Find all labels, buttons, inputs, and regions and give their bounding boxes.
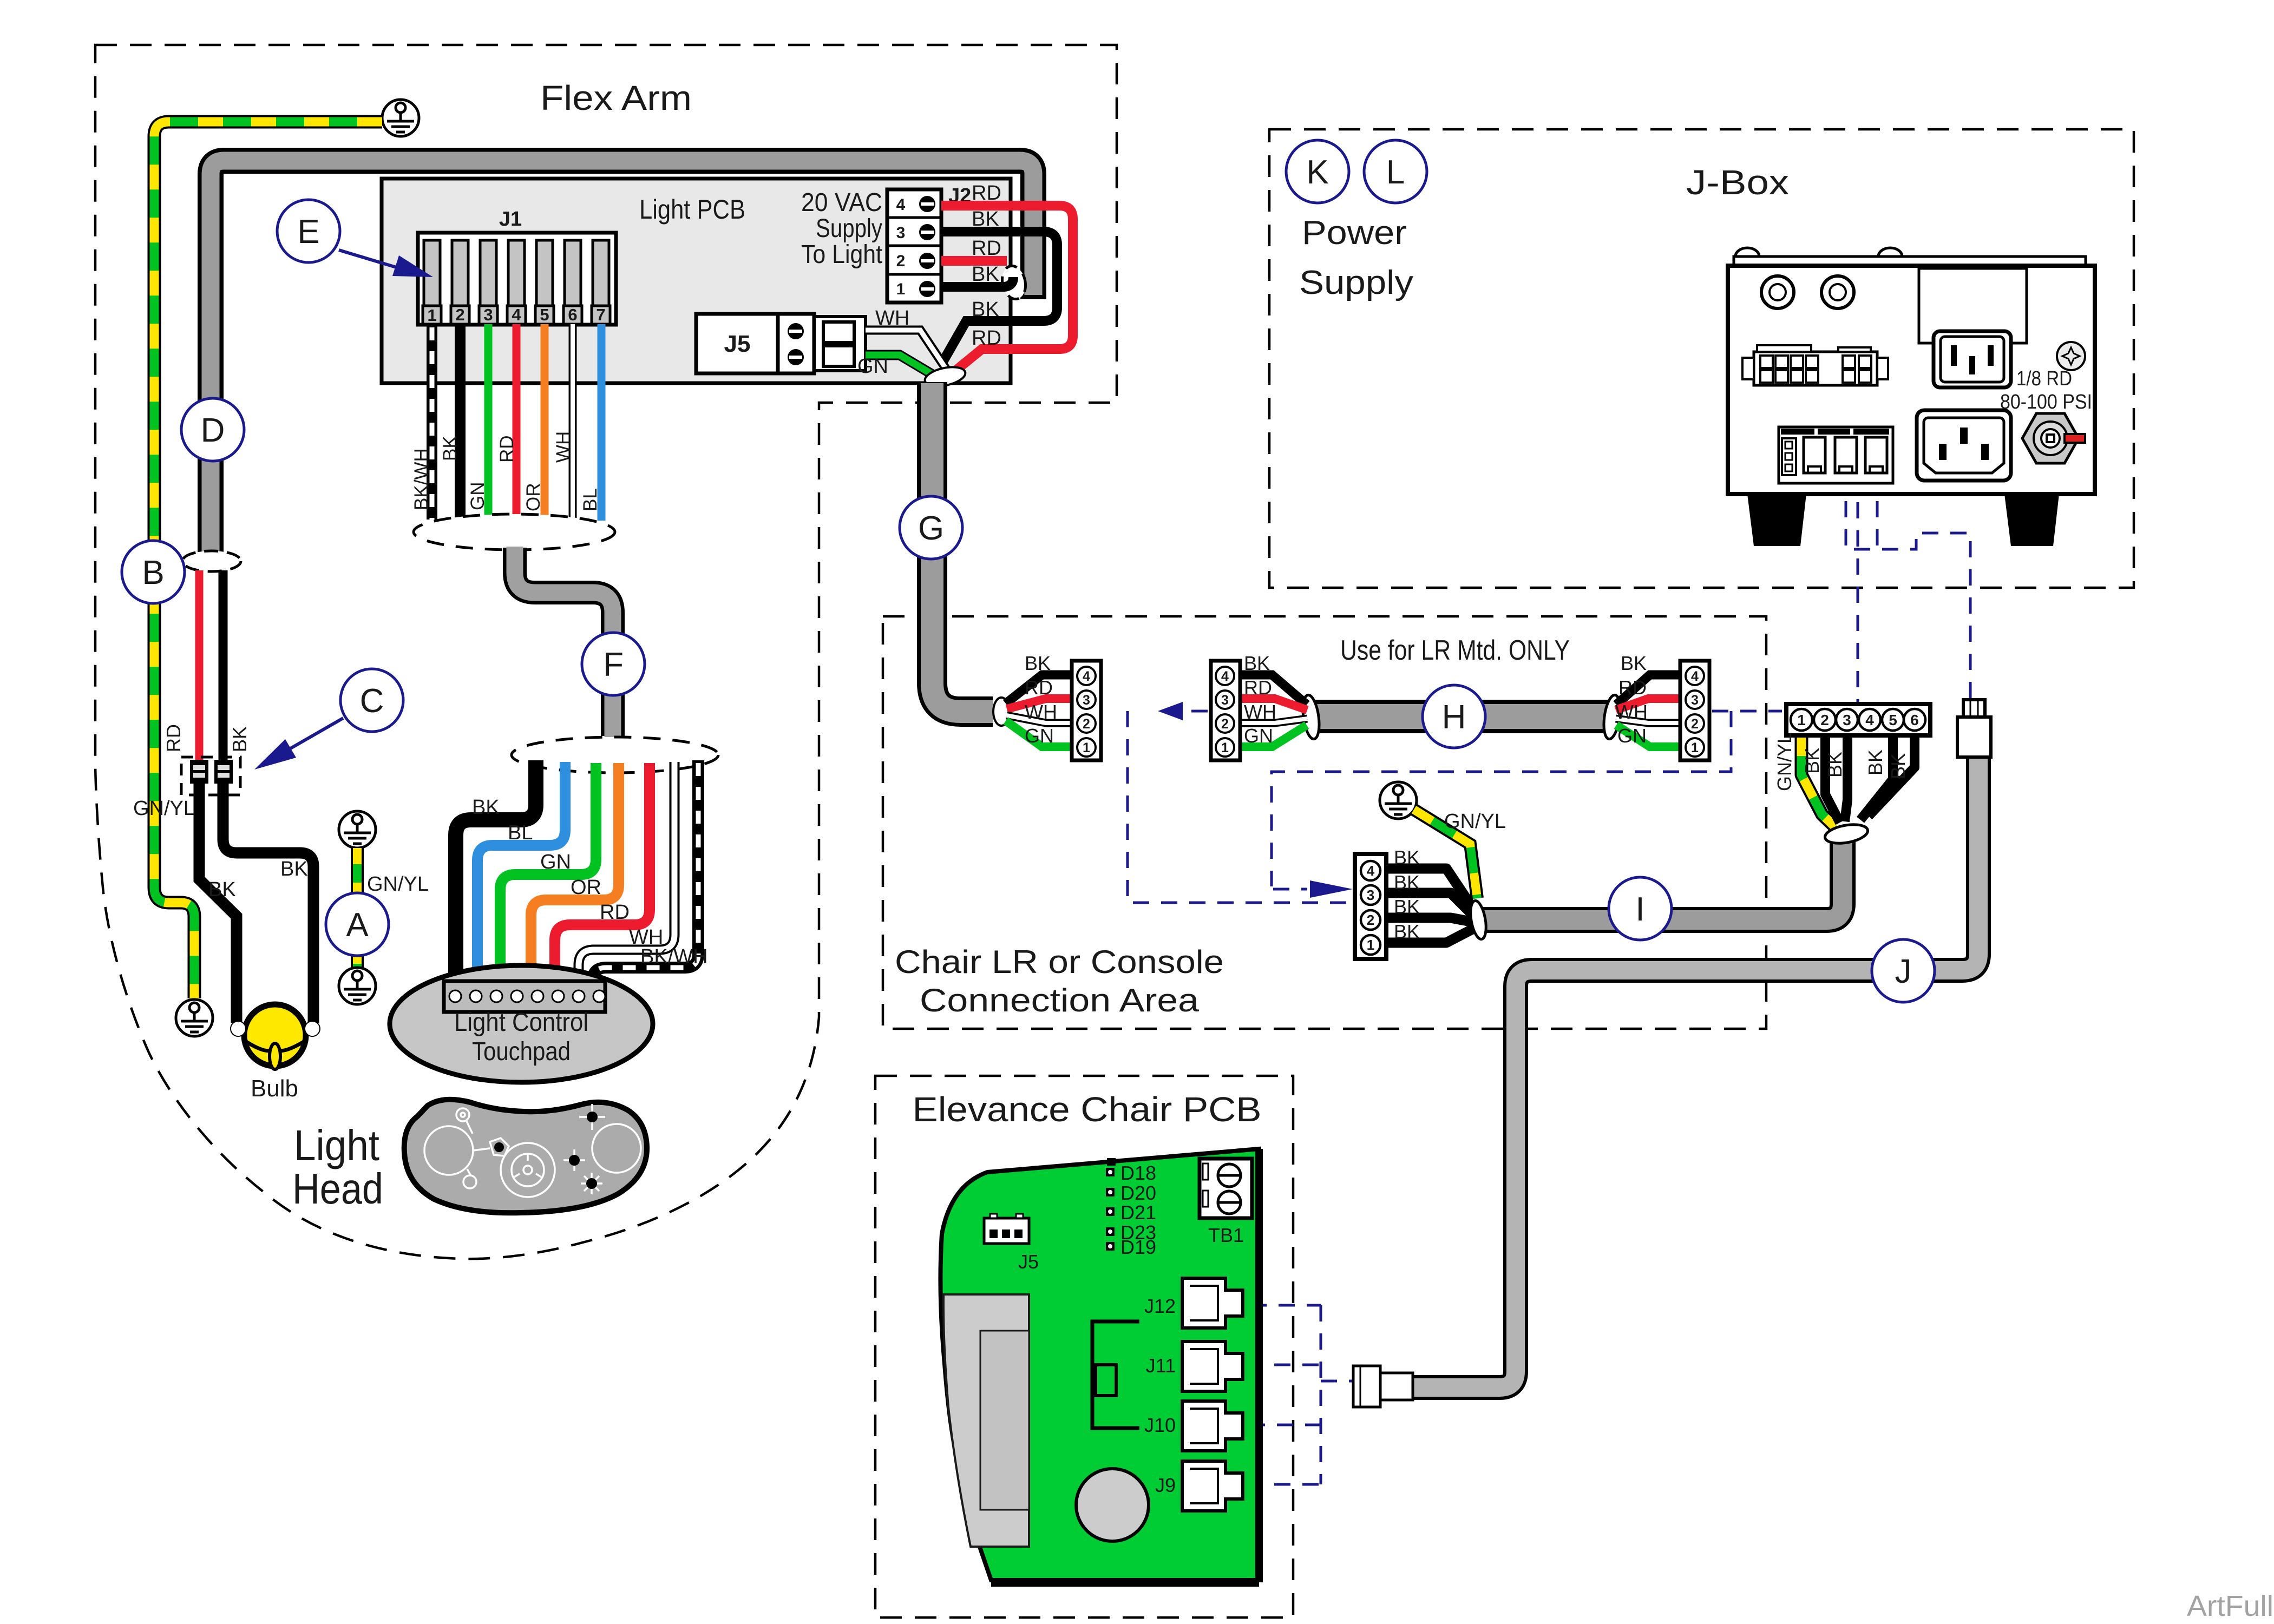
svg-text:Head: Head bbox=[292, 1165, 383, 1213]
6-pin bundle crimp bbox=[1824, 821, 1869, 846]
svg-text:GN: GN bbox=[1025, 725, 1054, 747]
wire D cable (grey, light head supply) bbox=[211, 161, 1033, 553]
svg-text:4: 4 bbox=[512, 305, 521, 324]
callout circle G bbox=[900, 496, 962, 559]
svg-text:Flex Arm: Flex Arm bbox=[540, 78, 692, 117]
touchpad fan wire OR bbox=[531, 763, 619, 984]
svg-text:BK: BK bbox=[1394, 921, 1420, 943]
svg-text:GN: GN bbox=[1617, 725, 1647, 747]
svg-text:4: 4 bbox=[1691, 669, 1699, 684]
PCB bracket bbox=[1092, 1321, 1139, 1428]
svg-text:J10: J10 bbox=[1144, 1414, 1176, 1436]
J11 jack bbox=[1182, 1342, 1243, 1391]
svg-text:BK/WH: BK/WH bbox=[640, 945, 708, 968]
svg-text:BK: BK bbox=[1621, 652, 1647, 674]
svg-text:BL: BL bbox=[508, 821, 533, 844]
touchpad cable opening (lower F ellipse) bbox=[512, 737, 718, 773]
A ground-bonding assembly bbox=[339, 811, 376, 848]
svg-text:BK: BK bbox=[972, 263, 999, 286]
J1 wire 7 BL bbox=[598, 324, 606, 521]
J-Box chassis bbox=[1734, 257, 2086, 267]
D cable upper end opening (near J2) bbox=[999, 264, 1028, 301]
Elevance Chair PCB dashed box bbox=[875, 1076, 1293, 1618]
svg-text:1: 1 bbox=[896, 280, 906, 298]
TB1 terminal bbox=[1200, 1159, 1252, 1218]
svg-text:OR: OR bbox=[571, 876, 601, 899]
svg-text:J1: J1 bbox=[499, 208, 522, 231]
svg-text:To Light: To Light bbox=[801, 240, 882, 269]
svg-text:WH: WH bbox=[1615, 701, 1648, 723]
feet bbox=[1747, 494, 1806, 546]
svg-text:5: 5 bbox=[540, 305, 549, 324]
J1 wire 3 GN bbox=[484, 324, 493, 522]
J2 wire BK terminal 1 to D cable bbox=[941, 277, 1013, 287]
svg-text:WH: WH bbox=[553, 431, 574, 463]
cable J (from Elevance PCB to power supply) bbox=[1411, 759, 1978, 1388]
callout circle K bbox=[1286, 140, 1349, 203]
route H-assembly to left connector (arrow) bbox=[1128, 361, 1970, 1484]
callout circle B bbox=[122, 541, 185, 603]
svg-text:BK: BK bbox=[472, 796, 500, 819]
svg-text:Touchpad: Touchpad bbox=[472, 1037, 571, 1066]
svg-text:F: F bbox=[603, 646, 624, 683]
svg-text:1/8 RD: 1/8 RD bbox=[2016, 367, 2072, 390]
svg-text:4: 4 bbox=[1221, 669, 1229, 684]
svg-text:4: 4 bbox=[896, 196, 906, 214]
E arrow bbox=[339, 250, 412, 272]
svg-text:GN: GN bbox=[540, 851, 571, 873]
svg-text:WH: WH bbox=[875, 307, 909, 330]
svg-text:E: E bbox=[297, 213, 319, 251]
mounting holes bbox=[1761, 276, 1794, 308]
touchpad fan wire WH bbox=[579, 762, 674, 984]
svg-text:3: 3 bbox=[483, 305, 493, 324]
svg-text:BK: BK bbox=[1025, 652, 1051, 674]
cable I bbox=[1482, 842, 1843, 920]
callout circle H bbox=[1423, 685, 1485, 748]
svg-text:J9: J9 bbox=[1155, 1474, 1176, 1496]
J2 wire BK terminal 3 loop to G head bbox=[941, 232, 1057, 363]
svg-text:GN/YL: GN/YL bbox=[367, 873, 429, 896]
svg-text:D: D bbox=[201, 412, 225, 449]
svg-text:4: 4 bbox=[1865, 712, 1874, 728]
svg-text:6: 6 bbox=[1910, 712, 1919, 728]
svg-text:WH: WH bbox=[1025, 701, 1057, 723]
svg-text:BK: BK bbox=[1801, 748, 1823, 774]
LED indicators bbox=[1106, 1158, 1116, 1251]
svg-text:J11: J11 bbox=[1146, 1355, 1176, 1377]
svg-text:J: J bbox=[1895, 953, 1912, 990]
svg-text:20 VAC: 20 VAC bbox=[801, 188, 882, 217]
J2 wire RD terminal 2 to D cable bbox=[941, 256, 1007, 266]
svg-text:2: 2 bbox=[1820, 712, 1829, 728]
J5 connector on light PCB bbox=[696, 314, 866, 373]
pneumatic fitting bbox=[2022, 413, 2079, 463]
touchpad fan wire BL bbox=[477, 762, 565, 984]
touchpad fan wire GN bbox=[500, 763, 596, 984]
svg-text:1: 1 bbox=[427, 306, 436, 325]
svg-text:GN/YL: GN/YL bbox=[133, 797, 195, 820]
svg-text:BK: BK bbox=[280, 858, 308, 880]
Chair LR or Console dashed box bbox=[883, 616, 1766, 1029]
C arrow bbox=[271, 718, 343, 760]
svg-text:6: 6 bbox=[568, 305, 577, 324]
RJ45 plug to power supply bbox=[1957, 700, 1991, 757]
svg-text:Light Control: Light Control bbox=[454, 1008, 588, 1037]
GN wire J5 to G head bbox=[866, 355, 940, 379]
cable G (to chair connection) bbox=[932, 382, 993, 712]
J1 connector bbox=[418, 208, 616, 325]
svg-text:4: 4 bbox=[1367, 863, 1375, 879]
svg-text:3: 3 bbox=[1221, 693, 1229, 708]
cable F bbox=[515, 548, 613, 736]
J9 jack bbox=[1182, 1461, 1243, 1511]
svg-text:BK: BK bbox=[972, 298, 999, 321]
svg-text:GN: GN bbox=[467, 482, 488, 511]
ground symbol top left bbox=[382, 100, 419, 136]
H-cable left 4-pin connector bbox=[1211, 661, 1240, 760]
svg-text:4: 4 bbox=[1083, 669, 1090, 684]
IEC inlet C14 bbox=[1934, 331, 2011, 387]
svg-text:BK: BK bbox=[1244, 652, 1270, 674]
svg-text:Use for LR Mtd. ONLY: Use for LR Mtd. ONLY bbox=[1340, 635, 1570, 666]
svg-text:RD: RD bbox=[600, 901, 630, 924]
svg-text:RD: RD bbox=[162, 724, 185, 752]
svg-text:RD: RD bbox=[972, 237, 1001, 260]
svg-text:3: 3 bbox=[1367, 887, 1374, 903]
GN/YL wire B to ground bbox=[154, 122, 382, 998]
svg-text:RD: RD bbox=[1244, 676, 1272, 699]
touchpad connector bar bbox=[444, 981, 605, 1012]
svg-text:BK: BK bbox=[1394, 846, 1420, 869]
svg-text:OR: OR bbox=[523, 483, 544, 512]
RD wire from D cable to connector C bbox=[195, 570, 204, 763]
svg-text:BK: BK bbox=[228, 726, 251, 752]
Light PCB board bbox=[382, 179, 1011, 383]
svg-text:GN/YL: GN/YL bbox=[1773, 733, 1795, 791]
H-cable right 4-pin connector bbox=[1680, 661, 1709, 760]
svg-text:BK: BK bbox=[1864, 749, 1886, 775]
svg-text:H: H bbox=[1442, 699, 1466, 736]
G-end 4-pin connector bbox=[1072, 661, 1101, 760]
G-end connector wires bbox=[1006, 675, 1072, 747]
svg-text:Elevance Chair PCB: Elevance Chair PCB bbox=[913, 1090, 1262, 1129]
touchpad fan wire BK bbox=[456, 760, 536, 984]
svg-text:2: 2 bbox=[896, 252, 906, 270]
svg-text:J12: J12 bbox=[1144, 1295, 1176, 1317]
GN/YL wire to I bundle bbox=[1414, 810, 1477, 898]
svg-text:1: 1 bbox=[1691, 740, 1699, 755]
J10 jack bbox=[1182, 1401, 1243, 1451]
svg-text:2: 2 bbox=[1083, 716, 1090, 732]
J2 wire RD terminal 4 loop to G head bbox=[941, 206, 1073, 371]
Molex connector bbox=[1754, 352, 1877, 385]
svg-text:BK: BK bbox=[440, 436, 461, 461]
svg-text:3: 3 bbox=[1083, 693, 1090, 708]
touchpad fan wire RD bbox=[555, 763, 650, 984]
svg-text:GN: GN bbox=[1244, 725, 1273, 747]
svg-text:D19: D19 bbox=[1120, 1236, 1156, 1258]
svg-text:GN/YL: GN/YL bbox=[1444, 810, 1506, 833]
svg-text:2: 2 bbox=[455, 305, 464, 324]
svg-text:D21: D21 bbox=[1120, 1201, 1156, 1224]
svg-text:BK: BK bbox=[1887, 753, 1909, 779]
Light Head drawing bbox=[404, 1100, 647, 1213]
svg-text:J5: J5 bbox=[724, 331, 751, 357]
connector C (inline splice) bbox=[181, 757, 240, 795]
svg-text:1: 1 bbox=[1367, 937, 1374, 953]
cable G right end opening bbox=[993, 698, 1010, 726]
callout circle L bbox=[1364, 140, 1427, 203]
touchpad fan wire BK/WH bbox=[593, 760, 698, 984]
svg-text:J-Box: J-Box bbox=[1686, 163, 1789, 202]
svg-text:Bulb: Bulb bbox=[251, 1075, 298, 1102]
svg-text:D18: D18 bbox=[1120, 1162, 1156, 1184]
svg-text:7: 7 bbox=[596, 305, 605, 324]
Light Control Touchpad ellipse bbox=[390, 965, 653, 1082]
I connector BK wires bbox=[1386, 869, 1477, 943]
grey mount cutout bbox=[943, 1294, 1029, 1547]
svg-text:1: 1 bbox=[1221, 740, 1229, 755]
callout circle I bbox=[1609, 877, 1672, 940]
svg-text:B: B bbox=[142, 554, 164, 591]
WH wire J5 to G head bbox=[866, 330, 948, 372]
6-pin connector bbox=[1786, 704, 1930, 735]
svg-text:RD: RD bbox=[972, 182, 1001, 205]
I bundle crimp bbox=[1468, 899, 1489, 940]
svg-text:I: I bbox=[1635, 891, 1644, 928]
H-cable left connector wires bbox=[1240, 675, 1307, 747]
I 4-pin connector bbox=[1355, 854, 1386, 959]
svg-text:Supply: Supply bbox=[1299, 264, 1413, 301]
D cable lower end opening bbox=[182, 551, 241, 571]
H left crimp bbox=[1300, 694, 1321, 740]
svg-text:RD: RD bbox=[972, 327, 1001, 350]
svg-text:BK: BK bbox=[1394, 871, 1420, 893]
ground symbol left bottom bbox=[176, 1000, 213, 1036]
svg-text:Connection Area: Connection Area bbox=[920, 982, 1200, 1018]
Bulb bbox=[231, 1004, 320, 1069]
svg-text:5: 5 bbox=[1889, 712, 1897, 728]
ground symbol chair area bbox=[1380, 782, 1417, 819]
svg-text:RD: RD bbox=[496, 435, 517, 463]
svg-text:K: K bbox=[1306, 154, 1328, 191]
svg-text:BK: BK bbox=[1394, 896, 1420, 918]
Power Supply dashed box bbox=[1269, 129, 2134, 588]
J1 wire 5 OR bbox=[541, 324, 549, 522]
green PCB bbox=[940, 1149, 1259, 1580]
blue arrowheads bbox=[1158, 702, 1183, 720]
J12 jack bbox=[1182, 1278, 1243, 1328]
cable G head opening bbox=[923, 364, 967, 389]
callout circle F bbox=[582, 633, 645, 695]
cable H bbox=[1315, 700, 1608, 733]
H right crimp bbox=[1601, 694, 1622, 740]
BK wire from D cable to connector C bbox=[219, 570, 228, 763]
J1 wire 6 WH bbox=[569, 324, 577, 522]
svg-text:J5: J5 bbox=[1018, 1251, 1039, 1273]
BK wire C to bulb right bbox=[223, 784, 313, 1023]
svg-text:RD: RD bbox=[1025, 676, 1053, 699]
flex arm cable opening (upper F ellipse) bbox=[414, 514, 615, 550]
svg-text:2: 2 bbox=[1221, 716, 1229, 732]
svg-text:Supply: Supply bbox=[816, 214, 882, 243]
svg-text:D20: D20 bbox=[1120, 1182, 1156, 1204]
BK wire C to bulb left bbox=[199, 784, 237, 1023]
svg-text:RD: RD bbox=[1618, 676, 1647, 699]
svg-text:1: 1 bbox=[1797, 712, 1806, 728]
callout circle J bbox=[1872, 939, 1935, 1002]
svg-text:3: 3 bbox=[1691, 693, 1699, 708]
callout circle E bbox=[277, 200, 340, 262]
svg-text:Power: Power bbox=[1302, 214, 1407, 252]
svg-text:BK/WH: BK/WH bbox=[411, 448, 432, 510]
6-pin connector wires bbox=[1801, 735, 1915, 827]
PCB J5 connector bbox=[984, 1218, 1029, 1244]
svg-text:3: 3 bbox=[896, 224, 906, 242]
svg-text:Light PCB: Light PCB bbox=[639, 194, 745, 225]
svg-text:C: C bbox=[360, 682, 384, 720]
svg-text:3: 3 bbox=[1843, 712, 1851, 728]
svg-text:ArtFull: ArtFull bbox=[2187, 1590, 2273, 1622]
callout circle D bbox=[181, 398, 244, 461]
callout circle C bbox=[340, 669, 403, 732]
J1 wire 2 BK bbox=[455, 324, 466, 521]
modular jack row bbox=[1779, 427, 1893, 483]
svg-text:WH: WH bbox=[1244, 701, 1276, 723]
svg-text:Chair LR or Console: Chair LR or Console bbox=[895, 944, 1224, 980]
svg-text:80-100 PSI: 80-100 PSI bbox=[2000, 391, 2092, 413]
callout circle A bbox=[326, 893, 389, 956]
J2 terminal block bbox=[887, 185, 971, 303]
phillips screw bbox=[2057, 342, 2085, 370]
svg-text:A: A bbox=[346, 906, 369, 944]
svg-text:Light: Light bbox=[294, 1121, 379, 1169]
svg-text:GN: GN bbox=[857, 355, 888, 378]
IEC outlet C13 bbox=[1917, 410, 2011, 481]
svg-text:BK: BK bbox=[972, 208, 999, 231]
J1 wire 4 RD bbox=[513, 324, 521, 522]
J1 wire 1 BK/WH bbox=[427, 324, 437, 520]
svg-text:BK: BK bbox=[208, 878, 236, 901]
cover recess bbox=[1919, 268, 2027, 343]
svg-text:BL: BL bbox=[580, 488, 601, 511]
RJ45 plug to chair PCB bbox=[1353, 1366, 1413, 1407]
svg-text:G: G bbox=[918, 510, 944, 547]
svg-text:1: 1 bbox=[1083, 740, 1090, 755]
svg-text:TB1: TB1 bbox=[1208, 1224, 1244, 1246]
svg-text:2: 2 bbox=[1691, 716, 1699, 732]
svg-text:BK: BK bbox=[1824, 752, 1846, 778]
H-cable right connector wires bbox=[1616, 675, 1680, 747]
PCB big circle bbox=[1076, 1469, 1149, 1541]
svg-text:2: 2 bbox=[1367, 912, 1374, 928]
Flex Arm / Light Head dashed boundary bbox=[95, 45, 1117, 1259]
svg-text:L: L bbox=[1386, 154, 1405, 191]
